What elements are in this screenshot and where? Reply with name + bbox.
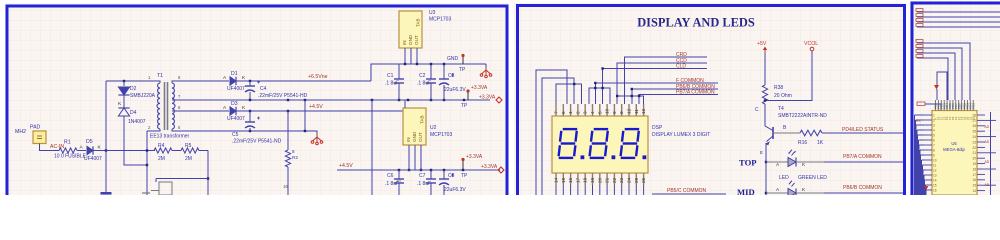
svg-text:17: 17: [972, 173, 976, 177]
svg-text:TOP: TOP: [739, 158, 757, 168]
wire bus2: [917, 16, 1000, 18]
svg-text:PB5: PB5: [971, 103, 975, 109]
wire pin bridge b: [589, 88, 610, 104]
svg-text:UF4007: UF4007: [227, 116, 245, 122]
svg-text:5: 5: [597, 111, 602, 114]
svg-text:+3.3VA: +3.3VA: [471, 85, 488, 91]
wire D5 cathode along row: [93, 150, 155, 152]
svg-text:MH2: MH2: [15, 129, 26, 135]
svg-text:+3.3VA: +3.3VA: [466, 154, 483, 160]
svg-text:DISPLAY AND LEDS: DISPLAY AND LEDS: [637, 16, 755, 30]
svg-text:MID: MID: [737, 187, 755, 195]
svg-text:27: 27: [972, 119, 976, 123]
7-seg digit 2: [590, 129, 609, 158]
test point +3.3VA lower: [461, 158, 464, 161]
svg-text:2M: 2M: [185, 156, 192, 162]
capacitor C8: [443, 170, 445, 179]
test point +3.3VA: [466, 89, 469, 92]
svg-text:.1 8uF: .1 8uF: [385, 181, 399, 187]
svg-text:R4: R4: [158, 143, 165, 149]
svg-text:D5: D5: [86, 139, 93, 145]
wire CLD: [603, 69, 707, 105]
svg-text:C2: C2: [419, 73, 426, 79]
svg-text:T1: T1: [157, 73, 163, 79]
resistor R38 20 Ohm: [764, 53, 766, 85]
svg-text:PB7/A COMMON: PB7/A COMMON: [843, 154, 882, 160]
svg-text:11: 11: [933, 163, 937, 167]
svg-text:14: 14: [933, 178, 937, 182]
svg-text:1N4007: 1N4007: [128, 119, 146, 125]
svg-text:R38: R38: [774, 85, 783, 91]
svg-text:1: 1: [568, 111, 573, 114]
wire mid1: [917, 43, 970, 100]
wire +6.5V rail: [236, 80, 371, 82]
svg-text:5: 5: [933, 133, 935, 137]
svg-text:21: 21: [972, 151, 976, 155]
capacitor C1: [398, 64, 400, 79]
svg-text:+6.5Vne: +6.5Vne: [308, 74, 328, 80]
svg-text:TP: TP: [461, 103, 468, 109]
svg-text:2: 2: [933, 118, 935, 122]
svg-text:22uF6.3V: 22uF6.3V: [444, 87, 466, 93]
sheet 1 frame: [7, 6, 507, 195]
svg-text:+3.3VA: +3.3VA: [481, 164, 498, 170]
svg-text:4: 4: [590, 111, 595, 114]
sheet 2 background grid: [514, 3, 906, 195]
svg-text:11: 11: [634, 109, 639, 114]
wire mid3: [917, 53, 955, 100]
svg-text:MCP1703: MCP1703: [430, 132, 452, 138]
svg-text:D3: D3: [231, 101, 238, 107]
svg-text:C8: C8: [448, 173, 455, 179]
svg-text:OUT: OUT: [418, 132, 423, 142]
svg-text:12: 12: [933, 168, 937, 172]
left routing corner 1: [536, 70, 567, 195]
wire +4.5V row: [236, 110, 403, 112]
svg-text:19: 19: [590, 177, 595, 183]
svg-text:26: 26: [641, 177, 646, 183]
wire PB6/B COMMON: [632, 89, 718, 104]
svg-text:GND: GND: [412, 131, 417, 142]
left routing corner 2: [542, 78, 574, 195]
svg-text:C3: C3: [448, 73, 455, 79]
svg-text:8: 8: [933, 148, 935, 152]
svg-text:15: 15: [561, 177, 566, 183]
svg-text:IN: IN: [406, 137, 411, 142]
wire MID led row: [766, 192, 788, 194]
svg-text:AD: AD: [985, 160, 990, 164]
svg-text:VCOL: VCOL: [804, 41, 818, 47]
diode D3 UF4007: [230, 107, 236, 115]
7-seg digit 3: [621, 129, 640, 158]
wire R16 to PD4: [822, 132, 903, 134]
svg-text:13: 13: [641, 108, 646, 114]
wire D4 anode down and right: [124, 116, 147, 165]
regulator U3 MCP1703: [399, 11, 422, 48]
terminal bar: [101, 192, 112, 195]
svg-text:AD: AD: [985, 140, 990, 144]
sheet 3 background grid: [910, 1, 1000, 195]
wire T1 pin7 GND rail: [176, 99, 490, 101]
svg-text:16: 16: [283, 184, 288, 189]
diode D5 UF4007: [87, 146, 93, 154]
svg-text:23: 23: [972, 140, 976, 144]
sheet 3 frame: [912, 3, 1000, 195]
svg-text:D2: D2: [130, 86, 137, 92]
wire mid4: [917, 58, 948, 100]
display bottom pins: [555, 173, 557, 185]
resistor R1 10 0 FUSIBLE: [59, 148, 77, 153]
capacitor C5: [249, 111, 251, 122]
svg-text:PB6/B COMMON: PB6/B COMMON: [843, 185, 882, 191]
display DSP LUMEX 3 digit: [552, 116, 648, 173]
wire xtal loop: [937, 72, 947, 100]
svg-text:20: 20: [597, 177, 602, 183]
TVS diode D2 SMBJ220A: [123, 81, 125, 86]
svg-text:7: 7: [933, 143, 935, 147]
regulator U2 MCP1703: [403, 108, 426, 145]
svg-text:18: 18: [972, 167, 976, 171]
earth ground red: [307, 131, 317, 134]
svg-text:25: 25: [634, 177, 639, 183]
svg-text:+4.5V: +4.5V: [339, 163, 353, 169]
wire bus1: [917, 11, 1000, 13]
wire step up to top rail: [371, 64, 486, 81]
IC box bottom cut: [159, 182, 172, 195]
svg-text:2: 2: [575, 111, 580, 114]
wire pin bridge a: [556, 84, 582, 104]
svg-text:6: 6: [561, 111, 566, 114]
svg-text:R16: R16: [798, 140, 807, 146]
capacitor C2: [430, 64, 432, 79]
power port +3.3VA diamond: [496, 97, 502, 103]
svg-text:LED: LED: [779, 175, 789, 181]
wire mid vertical: [304, 100, 306, 131]
svg-text:TAB: TAB: [416, 18, 421, 27]
wire primary top to T1 pin1: [106, 80, 155, 82]
svg-text:AD: AD: [985, 125, 990, 129]
svg-text:MCP1703: MCP1703: [429, 17, 451, 23]
svg-text:1: 1: [933, 113, 935, 117]
svg-text:DISPLAY LUMEX 3 DIGIT: DISPLAY LUMEX 3 DIGIT: [652, 132, 710, 138]
svg-text:D1: D1: [231, 71, 238, 77]
wire emitter down: [765, 143, 767, 195]
red power arrow bottom left: [924, 186, 928, 190]
svg-text:C1: C1: [387, 73, 394, 79]
U2 pins down: [408, 145, 410, 170]
wire collector node: [764, 104, 766, 126]
svg-text:22uF6.3V: 22uF6.3V: [444, 187, 466, 193]
svg-text:8: 8: [292, 149, 295, 154]
svg-text:TP: TP: [459, 67, 466, 73]
svg-text:UF4007: UF4007: [84, 156, 102, 162]
earth ground red top: [485, 64, 487, 67]
wire mid2: [917, 48, 962, 100]
svg-text:PD4/LED STATUS: PD4/LED STATUS: [842, 127, 884, 133]
svg-text:AC-IN: AC-IN: [50, 144, 64, 150]
svg-text:U3: U3: [429, 10, 436, 16]
wire left vertical lower: [371, 100, 373, 195]
svg-text:R5: R5: [185, 143, 192, 149]
diode D1 UF4007: [230, 77, 236, 85]
wire CCD: [617, 63, 707, 104]
svg-text:23: 23: [619, 177, 624, 183]
svg-text:3: 3: [583, 111, 588, 114]
svg-text:C4: C4: [260, 86, 267, 92]
svg-text:.1 8uF: .1 8uF: [417, 81, 431, 87]
svg-text:28: 28: [972, 113, 976, 117]
svg-text:4: 4: [933, 128, 935, 132]
svg-text:R1: R1: [64, 140, 71, 146]
svg-text:15: 15: [972, 184, 976, 188]
svg-text:18: 18: [583, 177, 588, 183]
svg-text:21: 21: [605, 177, 610, 183]
wire PB7/A COMMON: [639, 95, 718, 105]
capacitor C3: [443, 64, 445, 79]
wire pin bridge c: [617, 96, 643, 104]
svg-text:26: 26: [972, 124, 976, 128]
svg-text:AD: AD: [985, 183, 990, 187]
pad MH2: [33, 131, 46, 144]
sheet 2 frame: [518, 6, 905, 196]
MCU right pins: [990, 112, 992, 195]
svg-text:TAB: TAB: [420, 115, 425, 124]
svg-text:SMBT2222AINTR-ND: SMBT2222AINTR-ND: [778, 113, 827, 119]
U2 top pin: [404, 100, 406, 108]
svg-text:C6: C6: [387, 173, 394, 179]
svg-text:24: 24: [972, 135, 976, 139]
svg-text:C: C: [755, 107, 759, 113]
wires R4/R5 loop: [146, 131, 148, 195]
svg-text:+5V: +5V: [757, 41, 767, 47]
svg-text:TP: TP: [461, 173, 468, 179]
svg-text:GND: GND: [408, 34, 413, 45]
svg-text:10: 10: [605, 108, 610, 114]
svg-text:13: 13: [933, 173, 937, 177]
svg-text:DSP: DSP: [652, 125, 663, 131]
capacitor C4: [249, 81, 251, 86]
svg-text:D4: D4: [130, 110, 137, 116]
svg-text:22: 22: [612, 177, 617, 183]
svg-text:MEGA-8dip: MEGA-8dip: [943, 147, 965, 152]
net label TC: [917, 102, 925, 105]
display top pins: [555, 104, 557, 116]
svg-text:IN: IN: [402, 40, 407, 45]
svg-text:PB5/C COMMON: PB5/C COMMON: [667, 188, 707, 194]
svg-text:14: 14: [554, 177, 559, 183]
wire base to R16: [773, 132, 800, 134]
svg-text:+3.3VA: +3.3VA: [479, 95, 496, 101]
svg-text:U2: U2: [430, 125, 437, 131]
svg-text:14: 14: [972, 189, 976, 193]
IC left pin stubs: [142, 192, 150, 194]
svg-text:.22mF/25V P5541-ND: .22mF/25V P5541-ND: [232, 139, 282, 145]
svg-text:GREEN LED: GREEN LED: [798, 175, 827, 181]
svg-text:10 0 FUSIBLE: 10 0 FUSIBLE: [54, 154, 87, 160]
capacitor C7: [430, 170, 432, 179]
MCU top pins: [935, 100, 937, 111]
resistor R16 1K: [800, 130, 822, 136]
wire TOP led row: [766, 161, 788, 163]
svg-text:OUT: OUT: [414, 35, 419, 45]
wire bus3: [917, 21, 1000, 23]
svg-text:7: 7: [554, 111, 559, 114]
svg-text:E: E: [760, 150, 763, 155]
svg-text:C5: C5: [232, 132, 239, 138]
svg-text:6: 6: [933, 138, 935, 142]
wire CRD: [625, 57, 708, 104]
svg-text:16: 16: [972, 178, 976, 182]
svg-text:R2: R2: [292, 155, 298, 160]
wire AC-IN from pad: [40, 144, 60, 151]
svg-text:.1 8uF: .1 8uF: [417, 181, 431, 187]
svg-text:.22mF/25V P5541-HD: .22mF/25V P5541-HD: [258, 93, 308, 99]
svg-text:16: 16: [933, 188, 937, 192]
wire T1 pin8 to D1: [176, 80, 229, 82]
power port +3.3VA diamond lower: [498, 167, 504, 173]
svg-text:16: 16: [568, 177, 573, 183]
svg-text:8: 8: [619, 111, 624, 114]
wire neutral down to terminal: [105, 151, 107, 193]
wire PB5 row: [652, 193, 726, 195]
MCU left pins: [924, 114, 932, 116]
wire bus4: [917, 26, 1000, 28]
sheet 1 background grid: [5, 3, 509, 195]
wire T1 pin5 rail: [176, 130, 307, 132]
MCU left wire comb: [915, 114, 925, 116]
svg-text:2M: 2M: [158, 156, 165, 162]
svg-text:22: 22: [972, 146, 976, 150]
svg-text:SMBJ220A: SMBJ220A: [130, 93, 156, 99]
svg-text:9: 9: [933, 153, 935, 157]
svg-text:19: 19: [972, 162, 976, 166]
svg-text:12: 12: [627, 108, 632, 114]
wire primary left vertical: [105, 81, 107, 151]
svg-text:3: 3: [933, 123, 935, 127]
svg-text:10: 10: [933, 158, 937, 162]
svg-text:20 Ohm: 20 Ohm: [774, 93, 792, 99]
svg-text:U5: U5: [951, 141, 957, 146]
diode D4 1N4007: [123, 95, 125, 108]
U3 pins: [404, 48, 406, 64]
svg-text:PAD: PAD: [30, 125, 41, 131]
wire F COMMON: [595, 83, 718, 104]
wire R1 to D5: [77, 150, 86, 152]
capacitor C6: [398, 170, 400, 179]
svg-text:20: 20: [972, 157, 976, 161]
svg-text:17: 17: [575, 177, 580, 183]
svg-text:+4.5V: +4.5V: [309, 104, 323, 110]
svg-text:UF4007: UF4007: [227, 86, 245, 92]
svg-text:1K: 1K: [817, 140, 824, 146]
7-seg digit 1: [559, 129, 578, 158]
svg-text:T4: T4: [778, 106, 784, 112]
wire VCOL down and left: [765, 51, 812, 101]
svg-text:EE13 transformer: EE13 transformer: [150, 134, 190, 140]
wire T1 pin6 to D3: [176, 110, 229, 112]
svg-text:25: 25: [972, 130, 976, 134]
svg-text:.1 8uF: .1 8uF: [385, 81, 399, 87]
resistor R2: [287, 111, 289, 150]
svg-text:C7: C7: [419, 173, 426, 179]
svg-text:GND: GND: [447, 56, 459, 62]
svg-text:9: 9: [612, 111, 617, 114]
red power arrow: [934, 85, 939, 90]
microcontroller U5: [932, 111, 977, 196]
svg-text:24: 24: [627, 177, 632, 183]
svg-text:15: 15: [933, 183, 937, 187]
svg-text:RX: RX: [916, 119, 921, 123]
T1 pin stubs: [155, 81, 160, 83]
